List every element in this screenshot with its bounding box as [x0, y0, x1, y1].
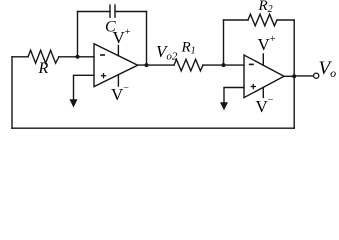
pin - of U1 [100, 54, 105, 56]
pin - of U2 [249, 63, 254, 65]
junction node B (R1 / R2 / U2 inverting) [222, 63, 226, 67]
resistor R2 [248, 14, 277, 26]
svg-text:V+: V+ [113, 27, 131, 47]
junction node A (R / C / U1 inverting) [76, 55, 80, 59]
svg-text:V+: V+ [258, 34, 276, 54]
svg-text:Vo2: Vo2 [156, 42, 178, 63]
junction node Vo2 [145, 63, 149, 67]
wire R to op-amp U1 inverting input [59, 56, 94, 58]
power lead V- of U1 [117, 75, 119, 86]
resistor R [28, 50, 59, 63]
wire node B up to R2 [223, 20, 225, 65]
wire U2 output to right vertical [284, 75, 294, 77]
op-amp U2 [244, 55, 284, 98]
wire capacitor right lead [115, 11, 147, 13]
svg-text:R1: R1 [181, 40, 196, 57]
wire right vertical (Vo node to bottom rail and R2 feedback) [293, 20, 295, 128]
power lead V+ of U1 [117, 46, 119, 56]
wire capacitor left lead [78, 11, 111, 13]
output terminal circle [314, 73, 319, 78]
wire R1 to op-amp U2 inverting input [203, 64, 244, 66]
ground (U2) [220, 102, 228, 110]
ground (U1) [70, 99, 78, 107]
svg-text:Vo: Vo [319, 58, 337, 80]
wire R2 right lead [277, 19, 294, 21]
op-amp U1 [94, 44, 138, 87]
pin + of U1 [101, 73, 106, 78]
svg-text:V−: V− [111, 83, 129, 105]
wire node A up to capacitor [77, 12, 79, 57]
capacitor C plates [110, 5, 115, 17]
svg-text:V−: V− [256, 95, 274, 117]
pin + of U2 [251, 84, 256, 89]
svg-text:R: R [38, 60, 49, 77]
wire U2 noninverting input to ground [224, 88, 244, 103]
junction node Vo [292, 74, 296, 78]
wire input to resistor R [12, 56, 28, 58]
wire bottom rail [12, 127, 294, 129]
wire capacitor down to node Vo2 [146, 12, 148, 66]
svg-text:R2: R2 [258, 0, 273, 15]
power lead V- of U2 [262, 87, 264, 97]
resistor R1 [174, 59, 203, 71]
power lead V+ of U2 [262, 54, 264, 65]
wire U1 noninverting input to ground [74, 75, 95, 99]
wire U1 output to R1 [138, 64, 174, 66]
wire Vo node to output terminal [294, 75, 313, 77]
wire R2 left lead [224, 19, 249, 21]
wire left input vertical [11, 57, 13, 128]
